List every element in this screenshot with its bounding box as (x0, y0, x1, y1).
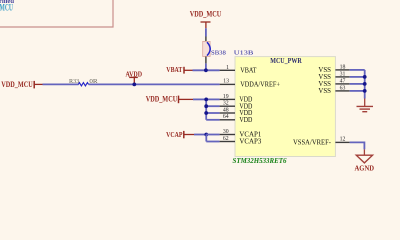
solder bridge SB38 (203, 41, 211, 56)
wire to pin 30 (206, 134, 219, 136)
svg-text:MCU_PWR: MCU_PWR (270, 57, 302, 65)
wire VDD_MCU to VDD bus (193, 98, 206, 100)
svg-text:MCU: MCU (0, 3, 13, 13)
power port AVDD (126, 69, 143, 83)
svg-text:VDD: VDD (239, 115, 252, 124)
component body U13B (STM32 power part) (235, 57, 335, 157)
junction VSS node 2 (363, 82, 367, 86)
svg-text:VDD_MCU: VDD_MCU (146, 94, 178, 103)
pin 62 VCAP3 (220, 136, 262, 145)
designator U13B (234, 50, 254, 57)
wire to pin 62 (206, 141, 219, 143)
svg-text:31: 31 (340, 71, 346, 77)
svg-text:VCAP3: VCAP3 (239, 136, 261, 145)
pin SB38 bottom (205, 57, 207, 64)
svg-text:63: 63 (340, 85, 346, 91)
wire VCAP to bus (194, 134, 206, 136)
wire VSS pin 63 (350, 90, 365, 92)
svg-text:64: 64 (223, 114, 229, 120)
ground GND (357, 99, 374, 112)
label SB38 (211, 50, 226, 57)
wire VCAP vertical (205, 135, 207, 142)
power port VDD_MCU (left edge) (1, 80, 42, 89)
svg-text:30: 30 (223, 129, 229, 135)
wire to pin 32 (206, 105, 219, 107)
svg-text:19: 19 (223, 94, 229, 100)
svg-text:48: 48 (223, 107, 229, 113)
svg-text:12: 12 (340, 137, 346, 143)
pin 31 VSS (318, 71, 349, 81)
wire VDD bus vertical (205, 99, 207, 119)
pin 63 VSS (318, 85, 349, 95)
svg-text:32: 32 (223, 101, 229, 107)
svg-text:SB38: SB38 (211, 50, 226, 57)
power port VDD_MCU (middle) (146, 94, 193, 103)
junction VCAP node (204, 133, 208, 137)
svg-text:VBAT: VBAT (240, 66, 257, 75)
junction VDD node 3 (204, 111, 208, 115)
wire VSS pin 47 (350, 83, 365, 85)
wire to pin 48 (206, 112, 219, 114)
wire VBAT (193, 69, 220, 71)
sheet symbol border (partial, top-left) (0, 0, 113, 27)
wire VDD_MCU to R33 (43, 83, 79, 85)
svg-text:VDDA/VREF+: VDDA/VREF+ (240, 80, 280, 89)
pin 48 VDD (220, 107, 253, 117)
resistor R33 (69, 79, 98, 86)
power port VBAT (166, 65, 192, 74)
junction VDD node 1 (204, 98, 208, 102)
pin 12 VSSA/VREF- (293, 137, 350, 147)
svg-text:STM32H533RET6: STM32H533RET6 (233, 157, 287, 165)
pin SB38 top (205, 37, 207, 42)
wire VSS pin 31 (350, 76, 365, 78)
pin 30 VCAP1 (220, 129, 262, 139)
wire VSS pin 18 (350, 69, 365, 71)
junction AVDD node (132, 83, 136, 87)
svg-text:VSSA/VREF-: VSSA/VREF- (293, 138, 332, 147)
wire VSS vertical bus (364, 70, 366, 99)
wire VSSA to AGND (350, 142, 365, 149)
junction VBAT node (204, 68, 208, 72)
label AGND (355, 164, 375, 173)
sheet text (clipped) (0, 0, 15, 5)
svg-text:VBAT: VBAT (166, 65, 182, 74)
junction VDD node 2 (204, 104, 208, 108)
pin 64 VDD (220, 114, 253, 124)
wire to pin 64 (206, 119, 219, 121)
svg-text:VCAP: VCAP (166, 130, 183, 139)
part number STM32H533RET6 (233, 157, 287, 165)
pin 47 VSS (318, 78, 349, 88)
power port VCAP (166, 130, 194, 139)
junction VSS node 1 (363, 75, 367, 79)
svg-text:VSS: VSS (318, 86, 331, 95)
wire to pin 19 (206, 98, 219, 100)
svg-text:13: 13 (223, 79, 229, 85)
svg-text:R33: R33 (69, 79, 79, 85)
svg-text:VDD_MCU: VDD_MCU (1, 80, 33, 89)
pin 19 VDD (220, 94, 253, 104)
wire SB38 to VBAT net (205, 63, 207, 70)
pin 18 VSS (318, 64, 349, 74)
sheet name MCU (0, 3, 13, 13)
svg-text:AGND: AGND (355, 164, 375, 173)
svg-text:18: 18 (340, 64, 346, 70)
svg-text:47: 47 (340, 78, 346, 84)
pin 1 VBAT (220, 65, 257, 75)
wire VDD_MCU to SB38 (205, 28, 207, 36)
svg-text:1: 1 (226, 65, 229, 71)
power port VDD_MCU (top) (190, 9, 222, 28)
svg-text:VDD_MCU: VDD_MCU (190, 9, 222, 18)
svg-text:62: 62 (223, 136, 229, 142)
pin 32 VDD (220, 101, 253, 111)
pin 13 VDDA/VREF+ (220, 79, 280, 89)
comment MCU_PWR (270, 57, 302, 65)
ground AGND symbol (356, 149, 372, 163)
wire R33 to pin 13 (89, 83, 220, 85)
junction VSS node 3 (363, 89, 367, 93)
svg-text:U13B: U13B (234, 50, 254, 57)
